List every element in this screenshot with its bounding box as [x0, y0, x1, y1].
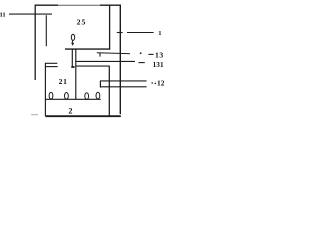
svg-text:11: 11 — [0, 11, 6, 18]
svg-text:25: 25 — [77, 18, 87, 27]
svg-text:1: 1 — [158, 30, 161, 37]
svg-text:13: 13 — [155, 51, 164, 60]
svg-text:12: 12 — [157, 79, 165, 88]
svg-text:21: 21 — [59, 77, 68, 86]
svg-text:131: 131 — [153, 61, 164, 69]
svg-text:2: 2 — [68, 106, 72, 115]
